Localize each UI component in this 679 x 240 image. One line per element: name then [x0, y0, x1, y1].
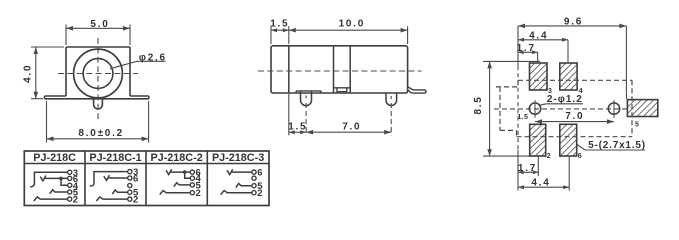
front view horizontal centerline — [58, 73, 138, 75]
svg-text:PJ-218C: PJ-218C — [33, 152, 76, 164]
pcb hole centerline dashed — [494, 108, 627, 110]
pcb dimension 1.5 label small — [517, 114, 528, 121]
pcb hole right φ1.2 — [608, 100, 619, 118]
cell3 pin 2 terminal — [190, 191, 194, 195]
cell2 pin 5 terminal — [128, 190, 132, 194]
table column divider 2 — [145, 151, 147, 206]
cell2 pin 5 spring contact — [112, 190, 127, 194]
table header PJ-218C-3 — [212, 152, 264, 164]
svg-text:4.4: 4.4 — [531, 178, 550, 189]
cell2 pin 6 switch contact — [104, 175, 128, 180]
side dimension 7.0 line — [306, 130, 391, 135]
svg-text:6: 6 — [133, 174, 138, 185]
table column divider 3 — [206, 151, 208, 206]
svg-text:7.0: 7.0 — [342, 122, 361, 133]
dimension 8.0 extension lines — [47, 101, 149, 143]
cell3 junction dot — [183, 170, 187, 174]
pcb pad 2 — [530, 124, 546, 156]
side view slot right line — [349, 46, 351, 93]
cell2 pin 2 label — [133, 195, 138, 206]
pcb reference line left — [517, 26, 519, 190]
svg-text:1.7: 1.7 — [517, 43, 536, 54]
cell3 pin 6 label — [196, 168, 201, 179]
svg-text:2: 2 — [196, 188, 201, 199]
svg-text:7.0: 7.0 — [565, 111, 584, 122]
cell2 pin 5 label — [133, 188, 139, 199]
cell4 pin 6 terminal — [252, 170, 256, 174]
side dimension 1.5 line bottom — [289, 130, 306, 134]
cell1 pin 4 wire — [61, 178, 67, 185]
table header PJ-218C-2 — [150, 152, 202, 164]
cell3 pin 4 wire — [185, 172, 190, 178]
cell4 pin 2 terminal — [252, 191, 256, 195]
pcb pad 5 — [627, 100, 657, 117]
table header PJ-218C — [33, 152, 76, 164]
cell4 pin 5 label — [257, 181, 263, 192]
pcb pad 3 label — [548, 88, 552, 95]
pcb dimension 9.6 label — [564, 16, 583, 27]
cell3 pin 4 terminal — [190, 176, 194, 180]
cell1 pin 4 label — [73, 181, 79, 192]
svg-text:2: 2 — [547, 153, 551, 160]
side dimension 1.5 label bottom — [288, 122, 307, 133]
svg-text:PJ-218C-1: PJ-218C-1 — [89, 152, 141, 164]
pcb pad 4 label — [579, 88, 583, 95]
pcb dimension 4.4 label bottom — [531, 178, 550, 189]
pcb dimension 4.4 line bottom — [518, 157, 569, 191]
svg-text:10.0: 10.0 — [339, 18, 365, 29]
cell4 pin 4 terminal unconnected — [252, 176, 256, 180]
table header separator — [24, 163, 269, 165]
cell3 pin 4 label — [196, 174, 202, 185]
svg-text:2: 2 — [133, 195, 138, 206]
cell2 pin 6 label — [133, 174, 138, 185]
svg-text:1.5: 1.5 — [270, 19, 289, 30]
pcb dimension 4.4 line top — [518, 38, 568, 62]
pcb dimension 8.5 line — [487, 61, 492, 156]
cell3 pin 2 sleeve contact — [160, 191, 190, 195]
pcb pad 3 — [530, 63, 548, 90]
cell3 pin 6 terminal — [190, 170, 194, 174]
dimension 8.0 line — [47, 137, 149, 142]
pcb dimension 1.7 line top — [518, 50, 538, 62]
cell2 pin 2 sleeve contact — [96, 197, 127, 201]
table outer border — [24, 151, 269, 206]
svg-text:6: 6 — [257, 168, 262, 179]
cell1 pin 4 terminal — [68, 183, 72, 187]
pcb pad 5 label — [635, 121, 639, 128]
cell3 pin 5 terminal — [190, 183, 194, 187]
cell1 pin 2 label — [73, 195, 78, 206]
pcb dimension 4.4 label top — [529, 30, 548, 41]
front view inner hole circle — [83, 59, 113, 89]
side dimension 10.0 label — [339, 18, 365, 29]
cell1 pin 3 terminal — [68, 170, 72, 174]
front view center pin — [94, 99, 103, 109]
pcb dimension 1.7 label top — [517, 43, 536, 54]
pcb dimension 7.0 label — [565, 111, 584, 122]
pcb dimension 8.5 extension lines — [483, 61, 546, 156]
svg-text:8.0±0.2: 8.0±0.2 — [78, 128, 124, 139]
cell3 pin 5 label — [196, 180, 202, 191]
cell2 pin 3 tip contact — [90, 172, 128, 186]
cell3 pin 2 label — [196, 188, 201, 199]
side dimension 1.5 line top — [271, 28, 289, 32]
cell2 pin 2 terminal — [128, 197, 132, 201]
pcb callout 5-(2.7x1.5) — [577, 140, 646, 151]
pcb pad 4 — [560, 63, 577, 90]
cell2 pin 4 terminal unconnected — [128, 183, 132, 187]
cell1 pin 5 spring contact — [50, 190, 68, 194]
side view slot notch — [334, 88, 351, 93]
side dimension 7.0 label — [342, 122, 361, 133]
svg-text:PJ-218C-2: PJ-218C-2 — [150, 152, 202, 164]
dimension 4.0 label — [22, 64, 33, 83]
cell2 pin 3 label — [133, 167, 138, 178]
svg-text:PJ-218C-3: PJ-218C-3 — [212, 152, 264, 164]
svg-text:φ2.6: φ2.6 — [139, 52, 167, 63]
cell1 pin 6 switch contact — [40, 176, 67, 181]
pcb dimension 7.0 line — [535, 119, 614, 124]
pcb pad 2 label — [547, 153, 551, 160]
side view left leg pin 3 — [301, 91, 312, 105]
cell1 pin 3 tip contact — [30, 172, 67, 186]
pcb dimension 8.5 label — [473, 95, 484, 114]
cell4 pin 2 sleeve contact — [221, 191, 252, 195]
cell1 pin 2 terminal — [68, 197, 72, 201]
cell1 pin 2 sleeve contact — [34, 197, 68, 201]
side dimension 1.5 label top — [270, 19, 289, 30]
side view right leg pin — [386, 93, 397, 106]
dimension 8.0±0.2 label — [78, 128, 124, 139]
svg-text:2: 2 — [73, 195, 78, 206]
cell1 pin 3 label — [73, 168, 78, 179]
cell4 pin 5 spring contact — [236, 184, 252, 188]
cell1 pin 6 terminal — [68, 176, 72, 180]
side view slot left line — [333, 46, 335, 93]
pcb dashed body outline — [496, 80, 632, 136]
side view pin 2 bent lug — [408, 87, 426, 94]
pcb hole left φ1.2 — [529, 100, 540, 118]
pcb pad 6 label — [578, 153, 582, 160]
side dimension extension lines bottom — [289, 94, 391, 135]
svg-text:2-φ1.2: 2-φ1.2 — [547, 94, 583, 105]
dimension 5.0 line — [66, 26, 130, 31]
svg-text:5: 5 — [635, 121, 639, 128]
side dimension extension lines top — [271, 26, 408, 44]
pcb dimension 1.7 line bottom — [518, 157, 538, 176]
cell4 pin 6 label — [257, 168, 262, 179]
svg-text:5.0: 5.0 — [90, 19, 109, 30]
dimension 4.0 line — [34, 47, 39, 99]
cell2 pin 3 terminal — [128, 170, 132, 174]
front view outer barrel circle — [74, 49, 123, 98]
svg-text:2: 2 — [257, 188, 262, 199]
svg-text:9.6: 9.6 — [564, 16, 583, 27]
cell2 pin 6 terminal — [128, 176, 132, 180]
svg-text:1.5: 1.5 — [517, 114, 528, 121]
svg-text:6: 6 — [578, 153, 582, 160]
svg-text:1.7: 1.7 — [518, 163, 537, 174]
svg-text:4.4: 4.4 — [529, 30, 548, 41]
pcb callout 2-φ1.2 — [540, 94, 584, 105]
callout φ2.6 label — [139, 52, 167, 63]
cell1 pin 6 label — [73, 174, 78, 185]
table column divider 1 — [84, 151, 86, 206]
cell4 pin 2 label — [257, 188, 262, 199]
pcb dimension 1.7 label bottom — [518, 163, 537, 174]
cell1 pin 5 terminal — [68, 190, 72, 194]
cell1 junction dot — [59, 177, 63, 181]
side view horizontal centerline — [258, 70, 422, 72]
table header PJ-218C-1 — [89, 152, 141, 164]
side view body outline — [271, 46, 408, 93]
svg-text:4.0: 4.0 — [22, 64, 33, 83]
cell1 pin 5 label — [73, 188, 79, 199]
cell4 pin 5 terminal — [252, 184, 256, 188]
side view front flange line — [288, 46, 290, 93]
callout φ2.6 leader — [110, 61, 166, 68]
front view vertical centerline — [97, 38, 99, 120]
dimension 4.0 extension lines — [31, 47, 64, 99]
cell4 pin 6 switch contact — [227, 169, 252, 174]
dimension 5.0 label — [90, 19, 109, 30]
svg-text:1.5: 1.5 — [288, 122, 307, 133]
front view body outline — [45, 47, 149, 99]
svg-text:5-(2.7x1.5): 5-(2.7x1.5) — [588, 140, 646, 151]
svg-text:8.5: 8.5 — [473, 95, 484, 114]
dimension 5.0 extension lines — [66, 25, 130, 46]
side view mounting plate — [296, 91, 321, 93]
pcb pad 6 — [560, 124, 577, 156]
side dimension 10.0 line — [289, 28, 408, 33]
cell3 pin 5 spring contact — [174, 183, 190, 187]
cell3 pin 6 switch contact — [166, 169, 190, 174]
pcb dimension 9.6 line — [518, 24, 626, 99]
